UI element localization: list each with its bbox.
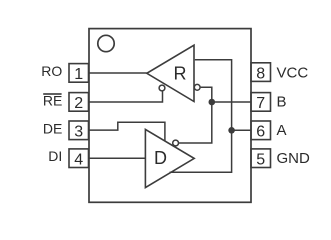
svg-text:DI: DI — [48, 148, 62, 164]
IC body U1 — [89, 29, 251, 203]
pin 5 box — [251, 149, 271, 168]
pin 8 box — [251, 63, 271, 82]
junction dot on A net — [228, 127, 235, 134]
svg-text:8: 8 — [256, 66, 265, 83]
pin 2 box — [69, 93, 89, 112]
wire RO: pin1 to R apex — [89, 72, 147, 74]
pin 6 box — [251, 121, 271, 140]
svg-text:5: 5 — [256, 151, 265, 168]
pin 7 box — [251, 93, 271, 112]
receiver inverting input bubble — [194, 84, 200, 90]
receiver enable bubble (RE) — [159, 85, 165, 91]
svg-text:4: 4 — [74, 151, 83, 168]
svg-text:GND: GND — [277, 150, 311, 167]
svg-text:RE: RE — [43, 93, 62, 109]
driver inverting output bubble (B) — [173, 140, 179, 146]
driver D triangle — [145, 129, 194, 187]
receiver R triangle — [147, 45, 194, 101]
wire A net: R non-inverting input, down past pin6 to D lower output — [170, 60, 232, 173]
junction dot on B net — [209, 99, 216, 106]
svg-text:3: 3 — [74, 124, 83, 141]
svg-text:A: A — [277, 122, 287, 139]
svg-text:1: 1 — [74, 66, 83, 83]
pin 1 box — [69, 64, 89, 83]
svg-text:RO: RO — [41, 63, 62, 79]
svg-text:6: 6 — [256, 124, 265, 141]
wire pin7 B stub — [212, 101, 251, 103]
wire B net: R inverting bubble to pin7 and down to D bubble — [179, 87, 212, 143]
wire DI: pin4 to D input — [89, 157, 146, 159]
svg-text:D: D — [154, 148, 167, 168]
svg-text:2: 2 — [74, 95, 83, 112]
pin-1 indicator circle — [98, 35, 114, 51]
wire DE: pin3 with jog to D enable (top edge) — [89, 122, 165, 141]
svg-text:R: R — [174, 64, 187, 84]
svg-text:VCC: VCC — [277, 65, 309, 82]
wire RE: pin2 to receiver enable bubble — [89, 92, 163, 103]
pin 4 box — [69, 149, 89, 168]
svg-text:7: 7 — [256, 95, 265, 112]
pin 3 box — [69, 121, 89, 140]
svg-text:DE: DE — [43, 120, 62, 136]
svg-text:B: B — [277, 94, 287, 111]
wire pin6 A stub — [232, 129, 251, 131]
